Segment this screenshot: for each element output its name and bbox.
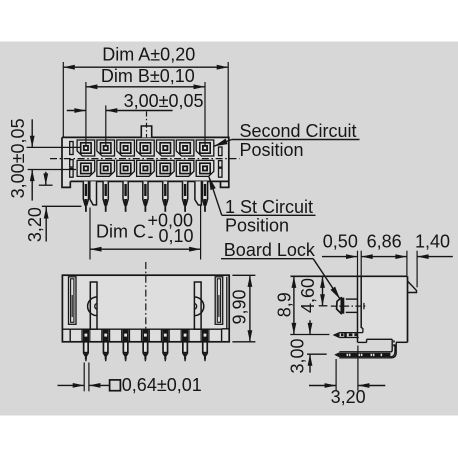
svg-text:3,20: 3,20 [25, 207, 45, 242]
svg-text:9,90: 9,90 [230, 289, 250, 324]
svg-text:3,00±0,05: 3,00±0,05 [124, 91, 204, 111]
svg-text:Second Circuit: Second Circuit [240, 121, 357, 141]
svg-text:3,20: 3,20 [331, 387, 366, 407]
svg-text:Dim A±0,20: Dim A±0,20 [102, 45, 195, 65]
svg-text:8,9: 8,9 [274, 292, 294, 317]
svg-text:6,86: 6,86 [367, 231, 402, 251]
svg-text:1,40: 1,40 [415, 231, 450, 251]
svg-text:0,50: 0,50 [323, 231, 358, 251]
svg-text:Board Lock: Board Lock [224, 240, 316, 260]
svg-text:0,64±0,01: 0,64±0,01 [122, 375, 202, 395]
svg-text:1 St Circuit: 1 St Circuit [225, 197, 313, 217]
svg-text:Position: Position [225, 216, 289, 236]
svg-text:3,00: 3,00 [287, 338, 307, 373]
svg-text:4,60: 4,60 [298, 278, 318, 313]
svg-text:Position: Position [240, 140, 304, 160]
svg-text:Dim C: Dim C [96, 221, 146, 241]
svg-text:Dim B±0,10: Dim B±0,10 [101, 66, 195, 86]
svg-text:- 0,10: - 0,10 [148, 226, 194, 246]
svg-text:3,00±0,05: 3,00±0,05 [8, 118, 28, 198]
